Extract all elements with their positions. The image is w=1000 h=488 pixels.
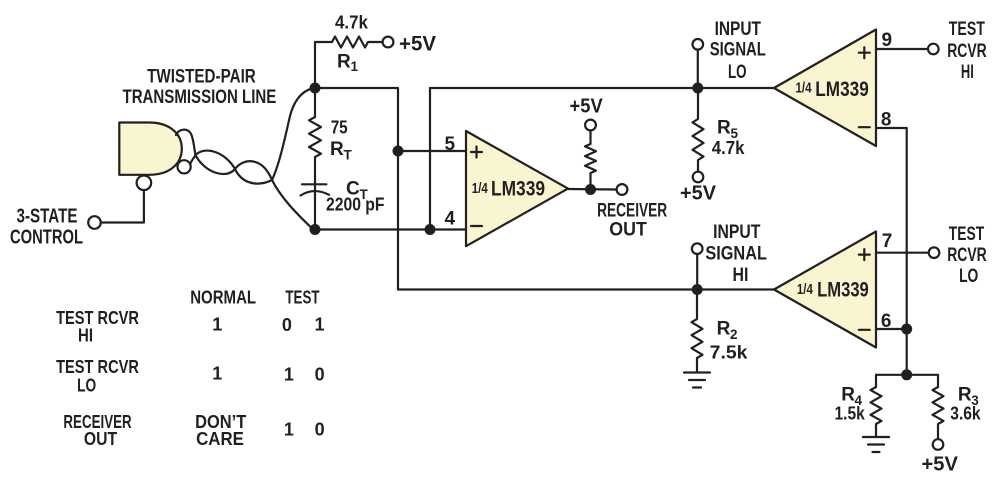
- svg-text:2200 pF: 2200 pF: [326, 195, 385, 215]
- svg-text:LM339: LM339: [815, 78, 869, 101]
- svg-text:TEST RCVR: TEST RCVR: [56, 357, 139, 377]
- op-amp U1A 1/4 LM339 (middle): [466, 131, 568, 246]
- svg-text:1.5k: 1.5k: [835, 403, 866, 423]
- wire pin5: [398, 150, 466, 152]
- terminal 3-state control: [88, 216, 101, 229]
- svg-text:1/4: 1/4: [796, 80, 812, 97]
- svg-text:4.7k: 4.7k: [335, 13, 369, 33]
- svg-text:5: 5: [445, 134, 456, 155]
- svg-text:1: 1: [212, 363, 222, 383]
- svg-text:TEST: TEST: [285, 288, 319, 308]
- plus sign U1B: [859, 47, 870, 58]
- svg-text:0: 0: [315, 419, 325, 439]
- svg-text:R: R: [717, 118, 731, 139]
- resistor R5 4.7k: [693, 88, 704, 172]
- driver output pin circle: [178, 160, 191, 173]
- svg-text:R: R: [330, 139, 344, 160]
- ground (R2): [684, 373, 710, 388]
- svg-text:9: 9: [882, 30, 893, 51]
- wire pin7: [876, 252, 929, 254]
- ground (R4): [863, 437, 889, 452]
- wire U1A output: [568, 188, 617, 191]
- terminal test rcvr lo: [929, 247, 940, 258]
- wire 3-state control: [101, 190, 144, 222]
- wire pin9: [876, 48, 928, 50]
- wire twisted pair lower conductor: [190, 155, 312, 229]
- wire pin8 down to divider: [876, 128, 907, 375]
- svg-text:1/4: 1/4: [472, 180, 488, 197]
- svg-text:4: 4: [445, 209, 456, 230]
- terminal +5V pullup: [585, 120, 596, 131]
- wire line LO to pin4: [315, 228, 466, 230]
- wire line HI to pin5 vertical: [315, 88, 774, 290]
- svg-text:CARE: CARE: [196, 429, 244, 449]
- minus sign U1C: [859, 329, 870, 331]
- svg-text:+5V: +5V: [570, 95, 604, 117]
- wire input signal lo stub: [697, 50, 699, 88]
- svg-text:1: 1: [315, 315, 325, 335]
- svg-text:1: 1: [351, 59, 359, 74]
- wire input signal hi stub: [696, 254, 698, 290]
- svg-text:NORMAL: NORMAL: [190, 288, 256, 308]
- resistor R2 7.5k: [692, 290, 703, 373]
- svg-text:R: R: [841, 385, 855, 406]
- svg-text:RECEIVER: RECEIVER: [597, 200, 667, 221]
- node line HI top: [310, 83, 321, 94]
- svg-text:1: 1: [284, 419, 294, 439]
- svg-text:HI: HI: [733, 265, 749, 286]
- svg-text:0: 0: [282, 315, 292, 335]
- svg-text:TEST: TEST: [949, 224, 985, 245]
- svg-text:7: 7: [882, 231, 893, 252]
- minus sign U1B: [859, 126, 870, 128]
- svg-text:T: T: [344, 148, 353, 163]
- svg-text:R: R: [717, 319, 731, 340]
- svg-text:LM339: LM339: [491, 178, 545, 201]
- svg-text:OUT: OUT: [84, 429, 117, 449]
- svg-text:8: 8: [881, 109, 892, 130]
- svg-text:RCVR: RCVR: [947, 41, 987, 62]
- resistor pullup receiver out: [585, 131, 596, 190]
- driver 3-state pin circle: [137, 176, 152, 191]
- svg-text:TEST RCVR: TEST RCVR: [56, 308, 139, 328]
- svg-text:LO: LO: [959, 266, 978, 287]
- driver gate U2 (3-state buffer): [119, 123, 182, 175]
- wire divider top: [876, 374, 938, 376]
- capacitor CT 2200pF: [302, 183, 326, 185]
- svg-text:75: 75: [331, 118, 348, 138]
- svg-text:1: 1: [212, 315, 222, 335]
- svg-text:TWISTED-PAIR: TWISTED-PAIR: [147, 66, 256, 88]
- plus sign U1A: [471, 147, 482, 158]
- svg-text:SIGNAL: SIGNAL: [710, 39, 767, 60]
- svg-text:1: 1: [284, 365, 294, 385]
- svg-text:INPUT: INPUT: [715, 19, 762, 40]
- svg-text:0: 0: [315, 365, 325, 385]
- terminal +5V at R1: [383, 37, 394, 48]
- plus sign U1C: [859, 249, 870, 260]
- node input signal hi: [692, 284, 703, 295]
- resistor R3 3.6k: [933, 375, 944, 439]
- terminal +5V R3: [933, 439, 944, 450]
- wire pin6: [876, 328, 907, 330]
- svg-text:HI: HI: [961, 62, 974, 83]
- node pin4 junction: [425, 224, 436, 235]
- resistor RT 75: [314, 88, 316, 117]
- svg-text:R: R: [337, 52, 351, 73]
- node receiver out: [585, 184, 596, 195]
- svg-text:LO: LO: [728, 62, 747, 83]
- svg-text:3-STATE: 3-STATE: [17, 205, 78, 228]
- terminal receiver out: [617, 184, 628, 195]
- svg-text:+5V: +5V: [399, 32, 437, 56]
- terminal +5V R5: [693, 172, 704, 183]
- op-amp U1B 1/4 LM339 (upper right): [774, 30, 876, 147]
- node pin5 junction: [393, 146, 404, 157]
- svg-text:1/4: 1/4: [797, 281, 813, 298]
- svg-text:6: 6: [881, 311, 892, 332]
- svg-text:HI: HI: [78, 326, 93, 346]
- svg-text:INPUT: INPUT: [713, 222, 761, 243]
- node pin6 junction: [901, 324, 912, 335]
- svg-text:LM339: LM339: [817, 279, 869, 302]
- svg-text:OUT: OUT: [609, 220, 647, 241]
- svg-text:2: 2: [730, 327, 738, 342]
- svg-text:7.5k: 7.5k: [710, 342, 749, 362]
- svg-text:R: R: [958, 385, 972, 406]
- svg-text:CONTROL: CONTROL: [10, 226, 83, 249]
- svg-text:SIGNAL: SIGNAL: [705, 244, 767, 265]
- op-amp U1C 1/4 LM339 (lower right): [774, 232, 876, 348]
- terminal input signal hi: [692, 243, 703, 254]
- node line LO bottom: [310, 224, 321, 235]
- node input signal lo: [692, 83, 703, 94]
- terminal test rcvr hi: [928, 44, 939, 55]
- svg-text:4.7k: 4.7k: [712, 138, 746, 158]
- minus sign U1A: [471, 225, 482, 227]
- svg-text:LO: LO: [77, 375, 96, 395]
- terminal input signal lo: [693, 39, 704, 50]
- resistor R1 4.7k: [315, 42, 332, 88]
- resistor R4 1.5k: [871, 375, 882, 437]
- svg-text:3.6k: 3.6k: [950, 403, 981, 423]
- svg-text:TRANSMISSION LINE: TRANSMISSION LINE: [123, 86, 277, 108]
- wire line LO up and right to input signal lo: [430, 88, 774, 230]
- svg-text:+5V: +5V: [922, 453, 959, 475]
- wire twisted pair upper conductor: [176, 88, 313, 183]
- svg-text:RCVR: RCVR: [947, 245, 987, 266]
- svg-text:+5V: +5V: [680, 183, 717, 205]
- node divider junction: [901, 369, 912, 380]
- svg-text:TEST: TEST: [949, 19, 985, 40]
